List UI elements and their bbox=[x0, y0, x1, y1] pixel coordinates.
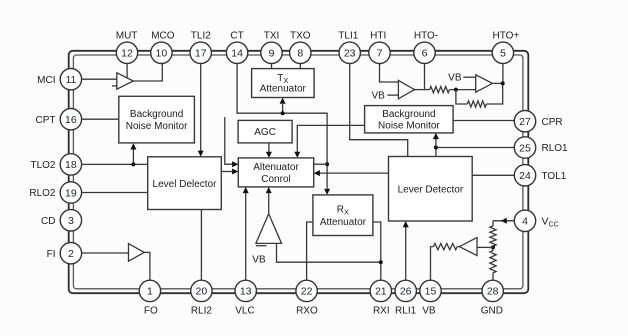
wire amp A4 output to resistor R1 bbox=[415, 89, 430, 91]
svg-text:Level Delector: Level Delector bbox=[153, 179, 218, 190]
arrowhead into Altenuator Conrol left upper bbox=[232, 161, 238, 167]
svg-text:17: 17 bbox=[195, 48, 207, 60]
pin 24 TOL1 bbox=[514, 165, 535, 186]
wire pin2 FI to amp A2 input bbox=[82, 252, 129, 254]
block AGC bbox=[238, 120, 292, 142]
pin 16 CPT bbox=[60, 109, 81, 130]
svg-text:Noise Monitor: Noise Monitor bbox=[378, 121, 440, 132]
arrowhead into Altenuator Conrol bottom right bbox=[266, 187, 272, 193]
wire pin26 RLI1 up to Lever Detector bbox=[405, 227, 407, 281]
wire pin14 CT feed path bbox=[237, 64, 327, 189]
pin 20 RLI2 bbox=[191, 280, 212, 301]
pin 6 HTO- bbox=[414, 42, 435, 63]
pin 1 FO bbox=[139, 280, 160, 301]
svg-text:TOL1: TOL1 bbox=[542, 171, 567, 182]
wire amp A1 output to pin10 MCO bbox=[133, 64, 162, 81]
svg-text:21: 21 bbox=[375, 286, 387, 298]
arrowhead into Altenuator Conrol bottom left bbox=[243, 187, 249, 193]
wire feedback right up bbox=[486, 83, 502, 104]
svg-text:Noise Monitor: Noise Monitor bbox=[126, 121, 188, 132]
svg-text:VB: VB bbox=[448, 73, 462, 84]
pin 13 VLC bbox=[235, 280, 256, 301]
svg-text:RXI: RXI bbox=[373, 305, 390, 316]
arrowhead into Lever Detector bottom bbox=[403, 221, 409, 227]
pin 12 MUT bbox=[116, 42, 137, 63]
svg-text:HTO+: HTO+ bbox=[493, 31, 520, 42]
wire divider node to amp A6 input bbox=[477, 246, 493, 248]
svg-text:RLI1: RLI1 bbox=[395, 305, 417, 316]
wire pin9 TXI to Tx Attenuator bbox=[271, 64, 273, 69]
tick VB input of amp A4 bbox=[387, 94, 398, 96]
svg-text:22: 22 bbox=[301, 286, 313, 298]
pin 7 HTI bbox=[369, 42, 390, 63]
wire Background Noise Monitor R to pin27 CPR bbox=[453, 120, 514, 122]
wire pin12 MUT mute control into amp A1 bbox=[126, 64, 128, 78]
pin 18 TLO2 bbox=[60, 154, 81, 175]
wire pin23 TLI1 to Lever Detector top bbox=[350, 64, 408, 157]
resistor R2 (feedback) bbox=[467, 101, 486, 107]
svg-text:23: 23 bbox=[344, 48, 356, 60]
arrowhead into Tx Attenuator bottom bbox=[280, 98, 286, 104]
junction dot divider node bbox=[491, 245, 495, 249]
block Background Noise Monitor (left) bbox=[119, 96, 195, 143]
svg-text:Lever Detector: Lever Detector bbox=[398, 184, 464, 195]
svg-text:25: 25 bbox=[519, 142, 531, 154]
block Tx Attenuator bbox=[252, 69, 315, 98]
svg-text:CD: CD bbox=[41, 216, 55, 227]
op-amp A5 (HTO+ amp) bbox=[476, 75, 493, 92]
arrowhead into Altenuator Conrol top left bbox=[266, 152, 272, 158]
wire feedback down left bbox=[456, 90, 467, 104]
pin 9 TXI bbox=[261, 42, 282, 63]
svg-text:RLO2: RLO2 bbox=[29, 188, 56, 199]
svg-text:5: 5 bbox=[500, 48, 506, 60]
svg-text:RLO1: RLO1 bbox=[542, 143, 569, 154]
resistor R4 (divider bottom) bbox=[490, 251, 496, 273]
svg-text:VB: VB bbox=[371, 91, 385, 102]
wire pin20 RLI2 up to Level Delector bottom bbox=[200, 210, 202, 281]
wire amp A6 output to resistor R5 bbox=[457, 246, 459, 248]
svg-text:24: 24 bbox=[519, 170, 531, 182]
wire branch up to Background Noise Monitor L bbox=[132, 150, 134, 165]
wire pin22 RXO to Rx Attenuator bbox=[307, 222, 313, 280]
pin 25 RLO1 bbox=[514, 137, 535, 158]
wire pin8 TXO to Tx Attenuator bbox=[299, 64, 301, 69]
svg-text:CT: CT bbox=[230, 31, 243, 42]
wire amp A5 output to pin5 HTO+ bbox=[492, 64, 503, 84]
svg-text:10: 10 bbox=[156, 48, 168, 60]
wire Lever Detector to Altenuator Conrol bbox=[320, 172, 389, 174]
svg-text:VLC: VLC bbox=[235, 305, 254, 316]
svg-text:14: 14 bbox=[231, 48, 243, 60]
junction dot RXI node bbox=[379, 260, 383, 264]
svg-text:Conrol: Conrol bbox=[261, 174, 290, 185]
junction dot on RLO1 wire bbox=[434, 146, 438, 150]
pin 28 GND bbox=[482, 280, 503, 301]
resistor R5 bbox=[433, 244, 457, 250]
pin 21 RXI bbox=[370, 280, 391, 301]
svg-text:HTI: HTI bbox=[370, 31, 386, 42]
svg-text:26: 26 bbox=[400, 286, 412, 298]
arrowhead into Level Delector top bbox=[198, 151, 204, 157]
arrowhead on Vcc wire bbox=[501, 218, 507, 224]
svg-text:AGC: AGC bbox=[254, 127, 276, 138]
svg-text:MCO: MCO bbox=[151, 31, 175, 42]
arrowhead into Rx Attenuator top bbox=[324, 189, 330, 195]
op-amp A4 (HTI amp) bbox=[398, 80, 414, 98]
svg-text:18: 18 bbox=[65, 159, 77, 171]
wire pin16 CPT to Background Noise Monitor L bbox=[82, 118, 119, 120]
outer border of IC block bbox=[69, 51, 529, 293]
wire pin6 HTO- down to node bbox=[424, 64, 426, 90]
svg-text:Background: Background bbox=[130, 109, 183, 120]
pin 27 CPR bbox=[514, 111, 535, 132]
svg-text:9: 9 bbox=[269, 48, 275, 60]
pin 4 VCC bbox=[514, 210, 535, 231]
svg-text:1: 1 bbox=[147, 286, 153, 298]
pin 2 FI bbox=[60, 243, 81, 264]
svg-text:Attenuator: Attenuator bbox=[320, 217, 367, 228]
pin 11 MCI bbox=[60, 69, 81, 90]
svg-text:RLI2: RLI2 bbox=[191, 305, 213, 316]
pin 19 RLO2 bbox=[60, 182, 81, 203]
wire pin25 RLO1 to node and Lever Detector top bbox=[436, 139, 514, 157]
wire resistor R4 to pin28 GND bbox=[492, 273, 494, 280]
wire Level Delector to Altenuator Conrol bbox=[221, 171, 232, 173]
svg-text:HTO-: HTO- bbox=[414, 31, 438, 42]
svg-text:CPR: CPR bbox=[542, 117, 563, 128]
wire Background Noise Monitor R to Altenuator Conrol bbox=[297, 125, 364, 152]
wire control line into Altenuator Conrol bbox=[225, 117, 233, 164]
pin 10 MCO bbox=[151, 42, 172, 63]
svg-text:4: 4 bbox=[522, 216, 528, 228]
svg-text:TLI1: TLI1 bbox=[338, 31, 358, 42]
wire Rx Attenuator output to pin21 RXI bbox=[373, 222, 381, 280]
junction dot attenuator control output node bbox=[325, 162, 329, 166]
pin 22 RXO bbox=[296, 280, 317, 301]
svg-text:CPT: CPT bbox=[36, 115, 56, 126]
wire pin19 RLO2 to Level Delector bbox=[82, 192, 148, 194]
resistor R3 (divider top) bbox=[490, 226, 496, 246]
junction dot HTO+ node bbox=[501, 81, 505, 85]
svg-text:MCI: MCI bbox=[37, 75, 55, 86]
pin 23 TLI1 bbox=[339, 42, 360, 63]
wire Lever Detector to pin24 TOL1 bbox=[472, 174, 514, 176]
pin 3 CD bbox=[60, 210, 81, 231]
block Background Noise Monitor (right) bbox=[365, 106, 454, 133]
pin 26 RLI1 bbox=[395, 280, 416, 301]
svg-text:Background: Background bbox=[382, 109, 435, 120]
wire amp A3 output up bbox=[268, 193, 270, 213]
wire pin18 TLO2 to Level Delector bbox=[82, 163, 148, 165]
wire divider node segment bbox=[492, 246, 494, 251]
wire pin11 MCI to amp A1 input bbox=[82, 78, 117, 80]
svg-text:FO: FO bbox=[144, 305, 158, 316]
svg-text:MUT: MUT bbox=[116, 31, 138, 42]
svg-text:15: 15 bbox=[425, 286, 437, 298]
svg-text:20: 20 bbox=[196, 286, 208, 298]
svg-text:Altenuator: Altenuator bbox=[253, 162, 299, 173]
inner border of IC block bbox=[73, 55, 523, 289]
wire AGC output down bbox=[268, 143, 270, 152]
pin 15 VB bbox=[420, 280, 441, 301]
block Level Delector bbox=[148, 157, 222, 210]
resistor R1 bbox=[430, 87, 450, 93]
svg-text:16: 16 bbox=[65, 114, 77, 126]
wire branch up to Tx Attenuator bbox=[282, 104, 284, 113]
svg-text:RXO: RXO bbox=[296, 305, 318, 316]
wire pin7 HTI to amp A4 input bbox=[380, 64, 399, 82]
svg-text:TLO2: TLO2 bbox=[30, 160, 55, 171]
svg-text:6: 6 bbox=[422, 48, 428, 60]
svg-text:VB: VB bbox=[252, 254, 266, 265]
svg-text:12: 12 bbox=[121, 48, 133, 60]
wire pin17 TLI2 down to Level Delector bbox=[200, 64, 202, 151]
wire Vcc to resistor R3 bbox=[492, 221, 494, 226]
junction dot HTO feedback node bbox=[454, 88, 458, 92]
svg-text:GND: GND bbox=[481, 305, 503, 316]
arrowhead into Altenuator Conrol right bbox=[314, 170, 320, 176]
arrowhead into Altenuator Conrol top right bbox=[294, 152, 300, 158]
arrowhead into Altenuator Conrol left lower bbox=[232, 169, 238, 175]
wire amp A3 input from RXI node bbox=[277, 243, 381, 262]
svg-text:2: 2 bbox=[68, 248, 74, 260]
junction dot on CT wire bbox=[281, 111, 285, 115]
svg-text:11: 11 bbox=[65, 74, 76, 86]
pin 14 CT bbox=[226, 42, 247, 63]
wire resistor R1 to amp A5 input bbox=[449, 89, 475, 91]
svg-text:VB: VB bbox=[422, 305, 436, 316]
svg-text:3: 3 bbox=[68, 215, 74, 227]
svg-text:28: 28 bbox=[487, 286, 499, 298]
svg-text:8: 8 bbox=[297, 48, 303, 60]
wire Altenuator Conrol output to node bbox=[314, 163, 327, 165]
wire pin4 Vcc to divider bbox=[493, 220, 514, 222]
junction dot on TLO2 wire bbox=[131, 162, 135, 166]
tick VB input of amp A3 bbox=[256, 245, 267, 247]
arrowhead into Background Noise Monitor L bottom bbox=[130, 143, 136, 149]
tick on amp A1 lower input bbox=[112, 85, 117, 87]
wire resistor R5 to pin15 VB bbox=[431, 247, 434, 281]
svg-text:19: 19 bbox=[65, 187, 77, 199]
tick VB input of amp A5 bbox=[463, 76, 475, 78]
pin 5 HTO+ bbox=[492, 42, 513, 63]
block Lever Detector bbox=[389, 157, 473, 222]
op-amp A2 (FI to FO amp) bbox=[129, 244, 145, 262]
block Rx Attenuator bbox=[313, 195, 373, 236]
svg-text:13: 13 bbox=[240, 286, 252, 298]
svg-text:Attenuator: Attenuator bbox=[260, 84, 307, 95]
svg-text:FI: FI bbox=[47, 249, 56, 260]
op-amp A3 (VB referenced buffer, points up) bbox=[256, 214, 282, 244]
block Altenuator Conrol bbox=[238, 158, 313, 187]
svg-text:27: 27 bbox=[519, 116, 531, 128]
svg-text:7: 7 bbox=[377, 48, 383, 60]
wire amp A2 output to pin1 FO bbox=[144, 252, 150, 280]
op-amp A6 (VB buffer, points left) bbox=[459, 238, 477, 256]
op-amp A1 (MCI input amp) bbox=[117, 73, 134, 89]
pin 8 TXO bbox=[290, 42, 311, 63]
wire pin13 VLC up to Altenuator Conrol bbox=[245, 193, 247, 280]
svg-text:TXI: TXI bbox=[264, 31, 280, 42]
pin 17 TLI2 bbox=[190, 42, 211, 63]
svg-text:TLI2: TLI2 bbox=[191, 31, 211, 42]
svg-text:TXO: TXO bbox=[290, 31, 311, 42]
arrowhead into Background Noise Monitor R bottom bbox=[433, 133, 439, 139]
